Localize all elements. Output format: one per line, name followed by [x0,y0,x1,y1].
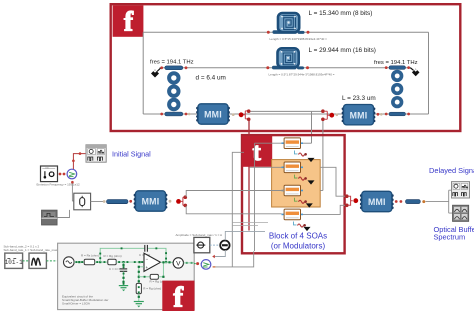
node dots right of U2 [377,113,383,116]
svg-text:Block of 4 SOAs: Block of 4 SOAs [269,232,327,241]
combiner J2 before U2 [321,109,338,121]
svg-text:Initial Signal: Initial Signal [112,149,151,158]
svg-text:R = Rg (ohm): R = Rg (ohm) [104,254,122,258]
wire: bottom bus line D y=114 [143,113,428,115]
combiner J3 (box output) [345,194,359,207]
wire: left vertical of loop x=143 [142,32,144,114]
svg-text:f: f [173,281,183,313]
svg-text:MMI: MMI [204,110,222,120]
spiral waveguide S2 (16 bits) [272,48,304,69]
svg-text:Length = 0.5*1.87*29.944e-3*19: Length = 0.5*1.87*29.944e-3*1988.8193e4F… [269,73,335,77]
svg-text:MMI: MMI [350,110,368,120]
wire: delay line A (8-bit) y=32.3 [143,31,428,33]
svg-text:101-1: 101-1 [5,259,23,266]
value label L1 [309,10,373,17]
resistor R1 (Rs) [81,253,99,264]
circuit caption (3 lines) [62,295,108,306]
ring chain left: bottom coupler bar [165,112,183,116]
ring chain right: top coupler bar [389,66,406,70]
non-inverting input network [138,266,144,284]
svg-text:−: − [146,256,149,261]
wire: to output scopes with split [426,190,453,213]
ground G1 (below C1) [119,286,128,292]
SOA A2 (row2) [282,162,304,173]
svg-text:R = Rs (ohm): R = Rs (ohm) [81,253,99,257]
bias icon cluster row4 [294,222,311,232]
svg-text:Amplitude = Sub-band_max / 1 =: Amplitude = Sub-band_max / 1 = A [176,233,223,237]
resistor R2 (Rg) [104,254,122,265]
wire: step block to pattern block [57,210,69,218]
node dots right of U4 [395,200,402,203]
annotation box F1 (delay-line section border) [111,4,461,131]
wire: row3 output to x=322.9 [320,190,323,192]
caption under spiral S2 [269,73,335,77]
node dots on line A [267,31,310,34]
caption under spiral S1 [270,37,328,41]
bias icon cluster row1 [295,151,315,163]
wire: subtractor bottom to modulator M2 [212,250,225,258]
terminator T2 (right, line B) [410,68,419,77]
label Initial Signal [112,149,151,158]
svg-text:d = 6.4 um: d = 6.4 um [196,75,226,82]
svg-text:fres = 194.1 THz: fres = 194.1 THz [150,60,194,66]
label fres right [374,60,418,66]
wire: splitter J1 to combiner J2 y=111.4 [251,110,322,112]
wire: row1 output to x=311.5 [301,142,312,144]
node dots on line B [266,66,309,69]
svg-text:Small-Driver = LSOA: Small-Driver = LSOA [62,301,90,305]
wire: voltmeter to modulator M2 [184,262,201,265]
svg-text:L = 29.944 mm (16 bits): L = 29.944 mm (16 bits) [309,47,376,54]
bit sequence generator block 101-1 [5,253,23,268]
sample block (delay/phase) [194,237,210,252]
wire: right vertical of loop x=428.5 [428,32,430,114]
wire: teal dashed to subtractor [210,244,220,246]
wire: J4 upper output to SOA row3 [186,191,284,198]
bias icon cluster row2 [295,175,315,185]
node dots around right bars [385,66,410,115]
ring chain left: top coupler bar [165,66,183,70]
MMI coupler U3 (input) [134,191,168,211]
svg-text:L = 23.3 um: L = 23.3 um [342,95,376,102]
node dots around left bars [160,66,190,115]
node dot (orange) after W2 [422,200,425,203]
svg-text:(or Modulators): (or Modulators) [271,242,326,251]
equivalent circuit box [58,243,195,309]
node dots before MMI U3 [129,200,132,203]
svg-text:f: f [124,7,134,37]
SOA A1 (row1) [282,138,304,149]
electrical step generator block [42,210,58,225]
label tab t [242,136,272,167]
MMI coupler U4 (output) [360,191,394,211]
spiral waveguide S1 (8 bits) [273,13,305,34]
feedback loop with capacitor C2 [100,245,167,263]
wire: red drop from J1 into SOA box x=249 [248,121,250,231]
subtractor block (minus circle) [220,241,229,250]
caption amplitude [176,233,223,237]
op-amp OA1 [144,253,161,271]
caption (or Modulators) [271,242,326,251]
SOA A4 (row4) [282,209,304,220]
ground G2 (below R4) [134,302,144,308]
wire: left feed vertical x=232.3 [232,152,244,266]
wire: drop x=311.5 from line J1-J2 [311,111,313,143]
voltmeter V [173,258,183,268]
wire: delay line B (16-bit) y=67.8 [160,67,411,69]
MMI coupler U2 (loop right) [342,105,376,125]
terminator T1 (left, line B) [151,68,161,77]
label tab f (bottom) [162,281,194,313]
oscilloscope (delayed signal) [452,182,470,198]
oscilloscope (initial signal) [86,145,106,162]
wire: R1 to R2 with feedback node [95,261,108,263]
wire: subtractor top to SOA bias bus [225,231,265,240]
ring chain right: rings x3 [393,72,402,107]
value label L2 [309,47,376,54]
wire: R2 to op-amp input [116,261,144,263]
caption Block of 4 SOAs [269,232,327,241]
optical modulator M1 (circle) [67,169,77,179]
wire: pattern block to waveguide [91,200,106,203]
junction dots (net points) [76,247,193,293]
wire: feed vertical x=254.5 [254,143,256,251]
svg-text:Spectrum: Spectrum [434,233,466,242]
wire: source to R1 [74,261,84,263]
svg-text:C = Cr F: C = Cr F [109,267,121,271]
node dots right of U3 [169,199,181,204]
wire: bias feed y=222.5 [232,222,268,224]
svg-text:L = 15.340 mm (8 bits): L = 15.340 mm (8 bits) [309,10,373,17]
AC source V1 [64,257,75,268]
ring chain right: bottom coupler bar [389,112,406,116]
wire: row1 input y=143.2 [255,142,285,144]
label Optical Buffer Spectrum [434,225,474,242]
wire: row4 output to combiner J3 [301,205,347,214]
label d=6.4um [196,75,226,82]
svg-text:Delayed Signal: Delayed Signal [429,166,474,175]
bias icon cluster row3 [295,198,313,208]
pattern/isolator block (0) [74,193,91,210]
wire: row2 input from red drop [250,166,284,168]
caption laser/modulator parameters [37,182,80,186]
svg-text:V: V [176,260,181,267]
resistor R4 (Rg vertical) [136,283,161,301]
wire: J4 lower output to SOA row4 [186,206,281,214]
straight waveguide W1 [107,200,129,204]
wire: modulator to pattern block [71,181,74,201]
straight waveguide W2 [406,200,421,204]
svg-text:+: + [146,265,149,270]
node dots right of U1 [232,112,244,117]
SOA A3 (row3) [282,185,304,196]
modulator M2 (circle) [201,260,211,270]
wire: M2 output to SOA block [213,251,254,267]
wire: tap to initial-signal scope (red) [72,152,86,169]
splitter J4 after U3 [181,195,187,207]
caption sub-band rates [4,245,66,253]
pulse shaper block (M) [29,253,46,268]
svg-text:Length = 0.5*15.340*1988.8193e: Length = 0.5*15.340*1988.8193e3·4F*40 = [270,37,328,41]
MMI coupler U1 (loop left) [196,104,230,124]
CW laser source block [41,166,58,182]
svg-text:Sub-band_rate_1 = Sub-band_rat: Sub-band_rate_1 = Sub-band_rate_max = 0.… [4,248,66,252]
wire: row2 output to combiner J3 [320,167,346,196]
resistor R3 (Rg horizontal, feedback leg) [139,262,168,283]
label fres left [150,60,194,66]
svg-text:fres = 194.1 THz: fres = 194.1 THz [374,60,418,66]
label Delayed Signal [429,166,474,175]
capacitor C1 shunt column [109,262,127,285]
splitter J1 after U1 [244,109,251,121]
wire: green dashed to pulse shaper [23,260,29,262]
annotation box T (SOA block border) [242,135,345,253]
svg-text:R = Rg (ohm): R = Rg (ohm) [143,286,161,290]
svg-text:MMI: MMI [142,197,160,207]
ring chain left: rings x3 [169,73,178,109]
label tab f (top) [113,5,144,36]
svg-text:MMI: MMI [368,197,386,207]
wire: drop x=322.9 to combiner J2 lower input [322,119,324,190]
wire: op-amp output to voltmeter [161,261,174,263]
spectrum analyzer (dark block) [453,205,469,221]
SOA group background rect (orange) [272,160,321,207]
wire: green dashed into circuit box [46,259,63,263]
wire: bias feed y=225.6 [232,225,258,227]
label L=23.3um [342,95,376,102]
node dots laser to modulator [59,173,66,176]
